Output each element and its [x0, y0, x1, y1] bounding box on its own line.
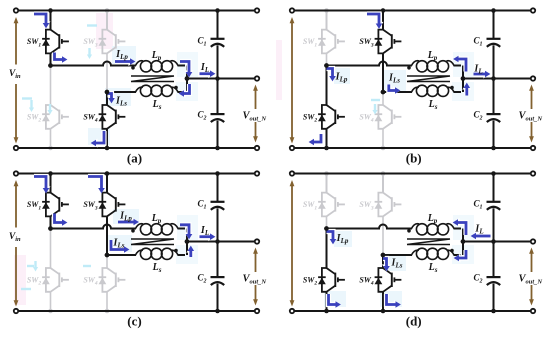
node leg2/top-rail (grey): [381, 171, 386, 176]
label SW2: [303, 113, 318, 124]
label C1: [197, 35, 206, 47]
node B junction: [105, 253, 110, 258]
wire leg2 lower (inactive, grey): [382, 92, 384, 148]
ghost arrow near SW2 (cyan): [22, 99, 53, 115]
node leg1/top-rail (grey): [324, 171, 329, 176]
node leg2/bottom-rail (grey): [105, 309, 110, 314]
inductor Lp winding: [136, 61, 179, 72]
label Vout_N: [243, 111, 267, 123]
transistor SW3 (inactive, grey IGBT+diode): [375, 193, 402, 217]
label Vout_N: [243, 274, 267, 286]
wire C-rail upper: [493, 11, 495, 39]
capacitor C1: [211, 39, 225, 47]
output terminal bottom: [531, 146, 535, 150]
output terminal bottom: [531, 309, 535, 313]
svg-text:(d): (d): [406, 314, 422, 329]
voltage arrow Vout_N: [253, 248, 258, 306]
ghost arrow near SW4 (cyan): [83, 265, 91, 267]
label C2: [473, 109, 482, 121]
label I_Ls: [391, 258, 403, 270]
jpeg tint artifacts (decorative): [324, 215, 474, 307]
wire C-rail lower: [493, 284, 495, 311]
current arrow I_Ls into SW4: [382, 259, 391, 272]
polarity dot Ls: [450, 86, 454, 90]
node mid/C-rail junction: [215, 76, 220, 81]
wire junction to C-rail (mid rail): [463, 78, 533, 80]
output terminal top: [531, 171, 535, 175]
label SW1 (grey): [303, 37, 318, 48]
current arrow I_Lp into SW2: [327, 69, 338, 82]
output terminal mid: [255, 239, 259, 243]
node C-rail/bottom-rail: [215, 309, 220, 314]
label SW3 (grey): [83, 37, 98, 48]
polarity dot Ls: [174, 86, 178, 90]
current arrow SW2 to bottom rail: [329, 294, 341, 309]
transistor SW3 (IGBT+diode): [99, 193, 126, 217]
node windings junction (top): [461, 76, 466, 81]
node leg2/bottom-rail: [105, 146, 110, 151]
label Vin: [9, 232, 21, 243]
input terminal top: [290, 171, 294, 175]
node B junction (top): [381, 90, 386, 95]
wire C-rail middle: [217, 208, 219, 276]
input terminal top: [290, 8, 294, 12]
current arrow I_Lp into SW2: [327, 232, 338, 245]
svg-text:(c): (c): [127, 314, 141, 329]
input terminal bottom: [290, 146, 294, 150]
inductor core: [131, 76, 174, 82]
capacitor C2: [211, 114, 225, 122]
input terminal bottom: [290, 309, 294, 313]
node leg1/top-rail (grey): [324, 8, 329, 13]
jpeg tint artifacts (decorative): [276, 40, 474, 101]
node A junction (top): [48, 226, 53, 231]
current arrow I_L: [200, 69, 216, 78]
node B junction (top): [105, 90, 110, 95]
node mid/C-rail junction: [215, 239, 220, 244]
node A junction (top): [48, 63, 53, 68]
wire bottom rail: [292, 310, 533, 312]
wire leg2 lower: [106, 92, 108, 148]
wire C-rail upper: [217, 174, 219, 202]
svg-text:(a): (a): [127, 151, 142, 166]
inductor Lp winding: [412, 61, 455, 72]
wire winding common vertical: [454, 66, 464, 93]
node leg2/bottom-rail (grey): [381, 146, 386, 151]
label SW2 (grey): [27, 276, 42, 287]
polarity dot Lp: [131, 66, 135, 70]
wire top rail: [292, 173, 533, 175]
node C-rail/top-rail: [215, 8, 220, 13]
label C2: [197, 109, 206, 121]
voltage arrow Vout_N: [253, 85, 258, 143]
wire leg1 upper (inactive, grey): [326, 11, 328, 66]
wire node A to Lp (hump over leg2): [51, 62, 137, 66]
wire leg1 lower: [326, 66, 328, 149]
wire junction to C-rail (mid rail): [187, 241, 257, 243]
wire bottom rail: [16, 310, 257, 312]
current arrow Lp to junction: [180, 225, 194, 240]
node windings junction (top): [185, 76, 190, 81]
label I_Lp: [115, 49, 128, 61]
node leg1/bottom-rail (grey): [48, 146, 53, 151]
current arrow junction into Lp: [453, 55, 466, 72]
transistor SW1 (inactive, grey IGBT+diode): [318, 30, 345, 54]
subfigure (c): [9, 171, 267, 328]
node A junction (top): [324, 226, 329, 231]
wire top rail: [292, 10, 533, 12]
output terminal top: [255, 8, 259, 12]
wire leg2 upper: [106, 174, 108, 256]
caption (c): [127, 314, 141, 329]
node windings junction: [461, 239, 466, 244]
current arrow I_Ls into Ls: [389, 85, 401, 96]
output terminal bottom: [255, 309, 259, 313]
wire leg1 upper: [50, 174, 52, 229]
current arrow I_L: [200, 232, 216, 241]
current arrow junction to Ls: [179, 84, 190, 98]
label C1: [473, 35, 482, 47]
jpeg tint artifacts (decorative): [14, 209, 198, 305]
label Ls: [428, 262, 438, 274]
transistor SW1 (inactive, grey IGBT+diode): [318, 193, 345, 217]
wire leg2 lower: [382, 255, 384, 311]
wire node A to Lp (hump over leg2): [327, 225, 413, 229]
current arrow junction into Ls: [454, 250, 466, 263]
label SW4 (grey): [359, 113, 374, 124]
wire C-rail lower: [217, 121, 219, 148]
node windings junction: [185, 239, 190, 244]
node windings junction (top): [185, 239, 190, 244]
node A junction: [324, 226, 329, 231]
wire winding common vertical: [454, 229, 464, 256]
label SW3: [359, 37, 374, 48]
wire leg2 lower (inactive, grey): [106, 255, 108, 311]
output terminal mid: [531, 239, 535, 243]
wire winding common vertical: [178, 229, 188, 256]
subfigure (a): [9, 8, 267, 165]
label Lp: [151, 213, 162, 225]
node B junction: [105, 90, 110, 95]
capacitor C1: [487, 202, 501, 210]
subfigure (b): [276, 8, 542, 165]
current arrow I_L: [474, 70, 491, 79]
label SW2 (grey): [27, 113, 42, 124]
transistor SW4 (IGBT+diode): [375, 268, 402, 292]
node windings junction: [461, 76, 466, 81]
label Lp: [427, 50, 438, 62]
current arrow into SW1: [34, 14, 51, 28]
wire leg1 lower (inactive, grey): [50, 229, 52, 312]
node C-rail/top-rail: [491, 8, 496, 13]
node C-rail/top-rail: [215, 171, 220, 176]
node A junction: [48, 226, 53, 231]
transistor SW4 (inactive, grey IGBT+diode): [99, 268, 126, 292]
transistor SW4 (IGBT+diode): [99, 105, 126, 129]
polarity dot Ls: [174, 249, 178, 253]
output terminal bottom: [255, 146, 259, 150]
inductor core: [407, 76, 450, 82]
input terminal bottom: [14, 309, 18, 313]
label Ls: [428, 99, 438, 111]
inductor Lp winding: [136, 224, 179, 235]
transistor SW3 (IGBT+diode): [375, 30, 402, 54]
transistor SW1 (IGBT+diode): [42, 30, 69, 54]
polarity dot Lp: [131, 229, 135, 233]
label I_L: [200, 225, 209, 237]
svg-text:(b): (b): [406, 151, 422, 166]
label SW3: [83, 200, 98, 211]
wire C-rail middle: [493, 208, 495, 276]
wire junction to C-rail (mid rail): [463, 241, 533, 243]
transistor SW2 (IGBT+diode): [318, 268, 345, 292]
voltage arrow Vout_N: [529, 85, 534, 143]
wire node A to Lp (hump over leg2): [327, 62, 413, 66]
node B junction: [381, 90, 386, 95]
wire winding common vertical: [178, 66, 188, 93]
node leg2/top-rail: [105, 171, 110, 176]
node leg2/bottom-rail: [381, 309, 386, 314]
node leg1/top-rail: [48, 8, 53, 13]
wire node B to Ls: [383, 91, 412, 93]
wire node A to Lp (hump over leg2): [51, 225, 137, 229]
current arrow I_L: [471, 232, 491, 241]
label C2: [473, 272, 482, 284]
label SW4: [83, 113, 98, 124]
label SW4: [359, 276, 374, 287]
input terminal top: [14, 8, 18, 12]
polarity dot Lp: [407, 229, 411, 233]
label Vout_N: [519, 111, 543, 123]
node A junction: [324, 63, 329, 68]
node mid/C-rail junction: [491, 76, 496, 81]
inductor Lp winding: [412, 224, 455, 235]
capacitor C2: [211, 277, 225, 285]
node leg1/bottom-rail: [324, 309, 329, 314]
output terminal mid: [531, 76, 535, 80]
ghost arrow near SW2 (cyan): [21, 261, 38, 289]
inductor Ls winding: [412, 248, 455, 259]
label I_Ls: [115, 96, 127, 108]
label Lp: [427, 213, 438, 225]
label Vout_N: [519, 274, 543, 286]
node C-rail/bottom-rail: [491, 146, 496, 151]
wire C-rail middle: [217, 45, 219, 113]
current arrow I_Lp: [115, 57, 135, 66]
label I_L: [473, 64, 482, 76]
wire C-rail upper: [493, 174, 495, 202]
current arrow into SW1: [34, 177, 51, 194]
wire C-rail middle: [493, 45, 495, 113]
node leg2/top-rail (grey): [105, 8, 110, 13]
voltage arrow Vin: [290, 17, 295, 144]
ghost arrow near SW4 (cyan): [371, 100, 380, 115]
label Lp: [151, 50, 162, 62]
label SW1: [27, 37, 42, 48]
label I_Ls: [113, 238, 125, 250]
label SW1: [27, 200, 42, 211]
label I_Ls: [388, 73, 400, 85]
inductor core: [131, 239, 174, 245]
label Ls: [152, 99, 162, 111]
label I_Lp: [336, 233, 349, 245]
node C-rail/top-rail: [491, 171, 496, 176]
caption (d): [406, 314, 422, 329]
voltage arrow Vin: [290, 180, 295, 307]
current arrow SW1 to node A: [55, 53, 68, 65]
wire C-rail upper: [217, 11, 219, 39]
current arrow junction into Lp: [453, 218, 466, 235]
output terminal mid: [255, 76, 259, 80]
node A junction (top): [324, 63, 329, 68]
label SW1 (grey): [303, 200, 318, 211]
current arrow SW1 to node A: [55, 214, 68, 228]
inductor Ls winding: [412, 85, 455, 96]
input terminal top: [14, 171, 18, 175]
node B junction (top): [381, 253, 386, 258]
output terminal top: [255, 171, 259, 175]
current arrow SW4 to bottom rail: [91, 131, 104, 148]
transistor SW2 (inactive, grey IGBT+diode): [42, 105, 69, 129]
label SW2: [303, 276, 318, 287]
current arrow Lp to junction: [180, 62, 194, 78]
label SW4 (grey): [83, 276, 98, 287]
caption (b): [406, 151, 422, 166]
node A junction: [48, 63, 53, 68]
capacitor C2: [487, 114, 501, 122]
inductor core: [407, 239, 450, 245]
label C1: [197, 198, 206, 210]
label I_Lp: [119, 211, 132, 223]
capacitor C1: [487, 39, 501, 47]
node leg1/bottom-rail: [324, 146, 329, 151]
node windings junction: [185, 76, 190, 81]
current arrow Ls to junction: [462, 83, 471, 96]
wire leg1 lower: [326, 229, 328, 312]
node B junction (top): [105, 253, 110, 258]
transistor SW1 (IGBT+diode): [42, 193, 69, 217]
transistor SW3 (inactive, grey IGBT+diode): [99, 30, 126, 54]
wire bottom rail: [292, 147, 533, 149]
label I_L: [474, 224, 483, 236]
wire node B to Ls: [107, 254, 136, 256]
capacitor C2: [487, 277, 501, 285]
node leg1/top-rail: [48, 171, 53, 176]
current arrow I_Ls into SW4: [107, 94, 116, 104]
wire C-rail lower: [217, 284, 219, 311]
voltage arrow Vin: [14, 17, 19, 144]
label C2: [197, 272, 206, 284]
wire junction to C-rail (mid rail): [187, 78, 257, 80]
caption (a): [127, 151, 142, 166]
wire top rail: [16, 173, 257, 175]
wire node B to Ls: [383, 254, 412, 256]
node B junction: [381, 253, 386, 258]
input terminal bottom: [14, 146, 18, 150]
wire node B to Ls: [107, 91, 136, 93]
label C1: [473, 198, 482, 210]
transistor SW2 (IGBT+diode): [318, 105, 345, 129]
wire leg2 upper: [382, 11, 384, 93]
transistor SW4 (inactive, grey IGBT+diode): [375, 105, 402, 129]
output terminal top: [531, 8, 535, 12]
ghost arrow near SW3 (cyan): [87, 26, 97, 60]
node C-rail/bottom-rail: [215, 146, 220, 151]
node C-rail/bottom-rail: [491, 309, 496, 314]
node windings junction (top): [461, 239, 466, 244]
current arrow I_Lp: [118, 218, 139, 227]
label I_L: [200, 62, 209, 74]
label I_Lp: [335, 72, 348, 84]
wire bottom rail: [16, 147, 257, 149]
wire leg1 upper: [50, 11, 52, 66]
voltage arrow Vout_N: [529, 248, 534, 306]
wire leg2 upper (inactive, grey): [106, 11, 108, 93]
wire C-rail lower: [493, 121, 495, 148]
inductor Ls winding: [136, 85, 179, 96]
current arrow into SW3: [88, 177, 106, 194]
wire leg1 lower (inactive, grey): [50, 66, 52, 149]
label SW3 (grey): [359, 200, 374, 211]
voltage arrow Vin: [14, 180, 19, 307]
capacitor C1: [211, 202, 225, 210]
current arrow into SW3: [367, 14, 384, 29]
current arrow Ls to junction: [186, 246, 195, 257]
current arrow SW4 to bottom rail: [387, 294, 401, 309]
wire top rail: [16, 10, 257, 12]
transistor SW2 (inactive, grey IGBT+diode): [42, 268, 69, 292]
node leg1/bottom-rail (grey): [48, 309, 53, 314]
inductor Ls winding: [136, 248, 179, 259]
node mid/C-rail junction: [491, 239, 496, 244]
polarity dot Lp: [407, 66, 411, 70]
current arrow I_Ls into Ls: [111, 240, 129, 254]
wire leg1 upper (inactive, grey): [326, 174, 328, 229]
label Vin: [9, 69, 21, 80]
label Ls: [152, 262, 162, 274]
wire leg2 upper (inactive, grey): [382, 174, 384, 256]
node leg2/top-rail: [381, 8, 386, 13]
subfigure (d): [290, 171, 543, 328]
polarity dot Ls: [450, 249, 454, 253]
jpeg tint artifacts (decorative): [88, 13, 198, 145]
current arrow SW2 to bottom rail: [309, 134, 321, 147]
